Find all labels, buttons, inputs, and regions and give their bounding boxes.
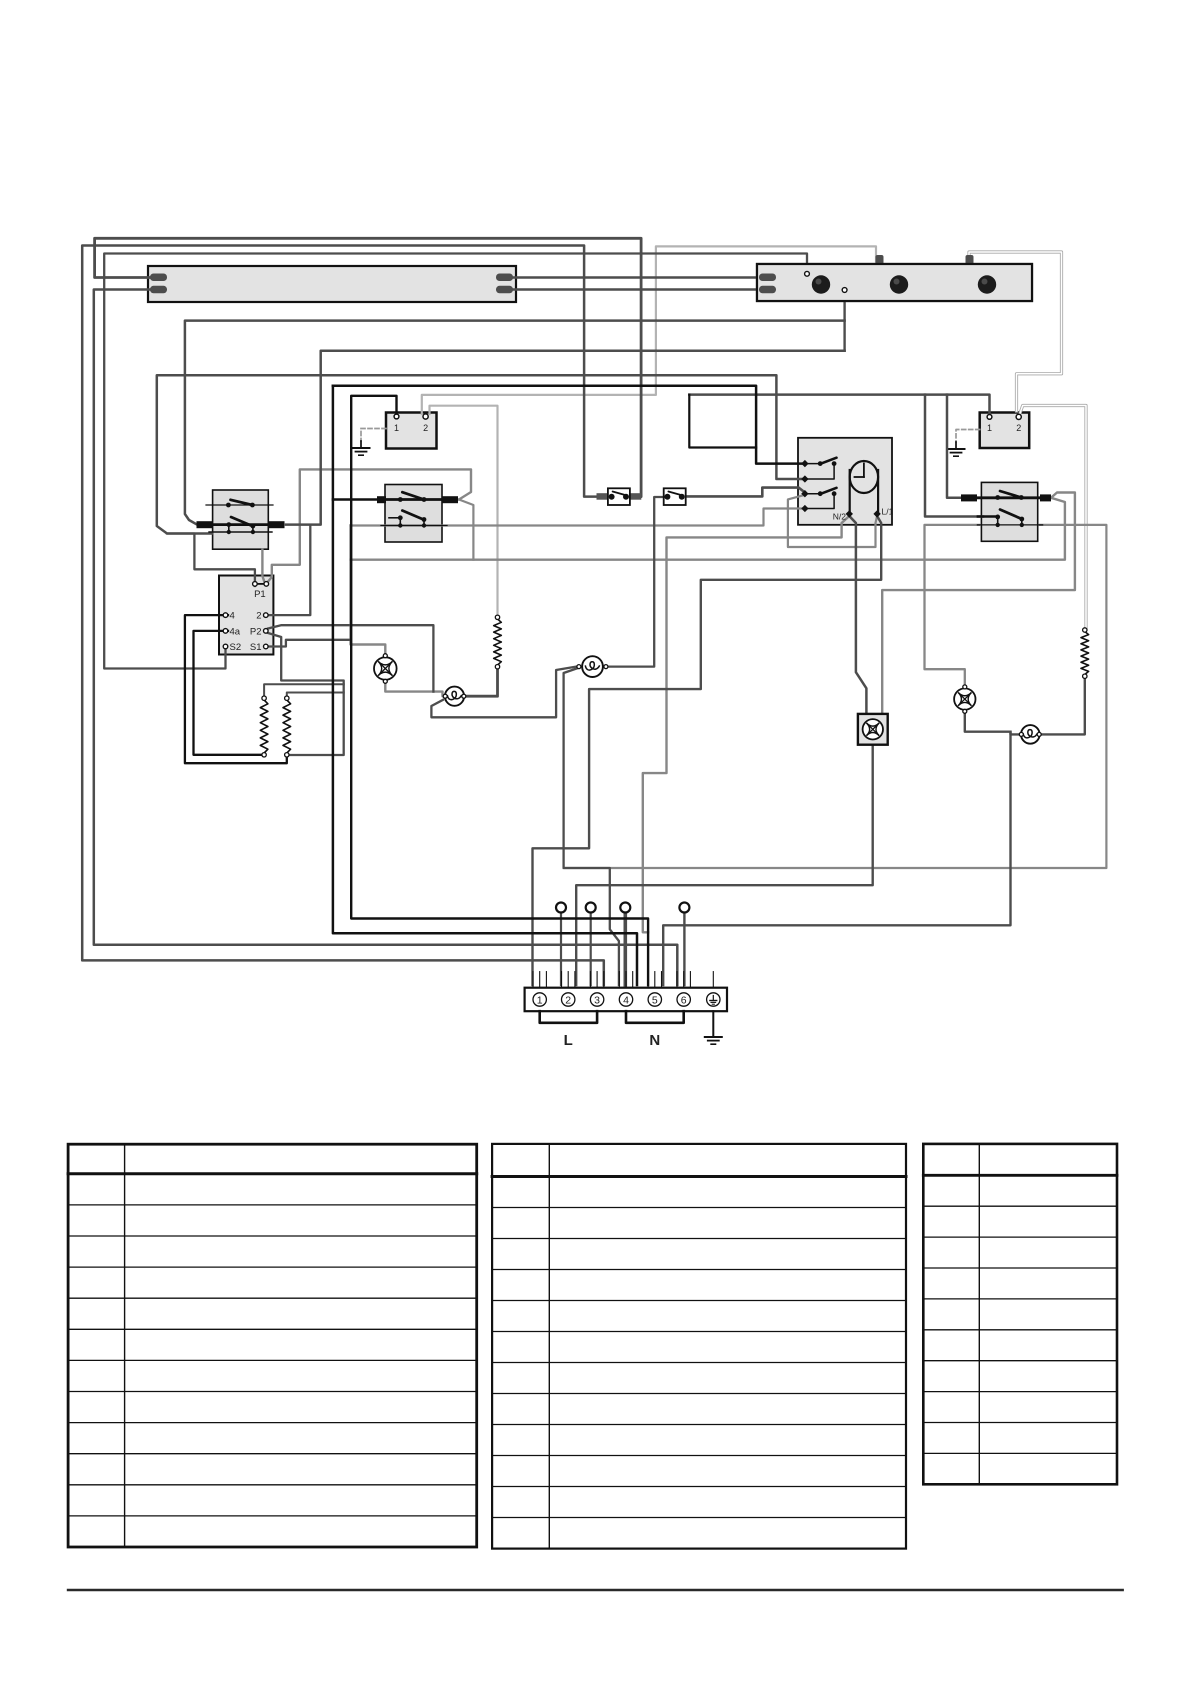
svg-text:1: 1	[987, 423, 992, 433]
svg-text:4: 4	[230, 611, 235, 622]
svg-text:1: 1	[394, 423, 399, 433]
svg-text:P1: P1	[254, 589, 266, 600]
svg-text:6: 6	[681, 994, 687, 1006]
svg-text:S1: S1	[250, 642, 262, 653]
svg-text:N/2: N/2	[833, 512, 847, 522]
svg-text:2: 2	[423, 423, 428, 433]
svg-text:2: 2	[1016, 423, 1021, 433]
svg-text:1: 1	[537, 994, 543, 1006]
svg-text:3: 3	[594, 994, 600, 1006]
svg-text:5: 5	[652, 994, 658, 1006]
svg-text:S2: S2	[230, 642, 242, 653]
svg-text:L: L	[564, 1032, 573, 1049]
svg-text:4a: 4a	[230, 626, 241, 637]
svg-text:4: 4	[623, 994, 629, 1006]
svg-text:2: 2	[256, 611, 261, 622]
svg-text:2: 2	[565, 994, 571, 1006]
svg-text:P2: P2	[250, 626, 262, 637]
svg-text:N: N	[649, 1032, 660, 1049]
svg-text:L/1: L/1	[882, 507, 894, 517]
